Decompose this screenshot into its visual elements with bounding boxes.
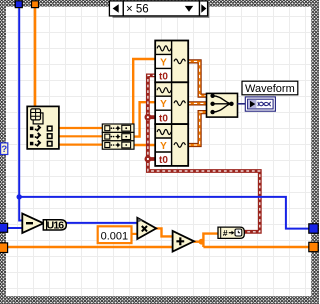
tunnel orange left [0,243,8,253]
svg-text:Y: Y [160,99,167,110]
wire: junction to right orange tunnel [203,246,310,248]
cluster array constant [27,106,59,148]
build waveform 3 [155,124,188,166]
multiply node [137,218,156,239]
wire: blue top tunnel down to subtract [19,7,23,221]
svg-text:Y: Y [160,141,167,152]
wire: add out to junction [194,240,204,242]
tunnel orange top [32,1,39,8]
tunnel blue right [309,224,318,233]
wire: multiply out to add [156,228,174,236]
structure border bottom [0,296,319,304]
svg-text:Waveform: Waveform [245,83,295,95]
selector label [109,1,209,18]
to-timestamp node [218,227,244,238]
svg-text:U16: U16 [47,220,65,232]
U16 conversion tag [43,220,66,232]
tunnel orange right [309,242,318,251]
merge signals node [207,93,238,117]
add node [173,231,194,252]
wire: waveform out BW3 to merge [188,112,208,145]
wire: waveform out BW2 to merge [188,101,208,105]
wire: merge to waveform indicator [238,103,246,105]
wire: junction up to To-Timestamp [203,234,218,247]
build waveform 2 [155,82,188,124]
structure border left [0,0,6,304]
index array 3 [102,141,134,149]
case selector ? terminal [1,143,8,155]
svg-text:t0: t0 [159,113,168,124]
junction orange [199,239,205,245]
waveform indicator terminal [245,97,275,111]
wire: index array 2 out to build waveform 2 Y [134,102,156,136]
subtract node [22,214,43,234]
index array 1 [102,124,134,132]
wire: timestamp net (t0 rail and loop from To-Timestamp node) [148,75,260,231]
svg-text:t0: t0 [159,72,168,83]
wire: orange left tunnel to add lower input [7,246,173,248]
junction blue [17,194,22,199]
svg-text:0.001: 0.001 [101,230,129,242]
wire: U16 result to multiply [66,222,139,224]
wire: index array 3 out to build waveform 3 Y [134,144,156,146]
tunnel blue left [0,223,8,232]
build waveform 1 [155,41,188,83]
tunnel blue top [15,1,22,8]
label Waveform [242,81,298,95]
svg-text:?: ? [1,144,7,155]
junction t0 build waveform 2 [145,114,152,121]
structure border right [311,0,319,304]
svg-text:#: # [223,228,228,238]
junction t0 build waveform 3 [145,156,152,163]
structure border top [0,0,319,7]
wire: index array 1 out to build waveform 1 Y [133,59,156,128]
svg-text:× 56: × 56 [126,3,149,15]
wire: blue main horizontal to right tunnel [19,197,310,229]
wire: cluster node to index array rows [58,128,104,145]
svg-text:t0: t0 [159,155,168,166]
constant 0.001 [98,226,132,243]
wire: 0.001 constant to multiply [131,233,138,235]
wire: orange tunnel feeder to cluster node [34,6,37,107]
svg-text:Y: Y [160,57,167,68]
index array 2 [102,132,134,140]
wire: blue left tunnel to subtract lower input [7,227,23,229]
wire: waveform out BW1 to merge [188,61,208,95]
